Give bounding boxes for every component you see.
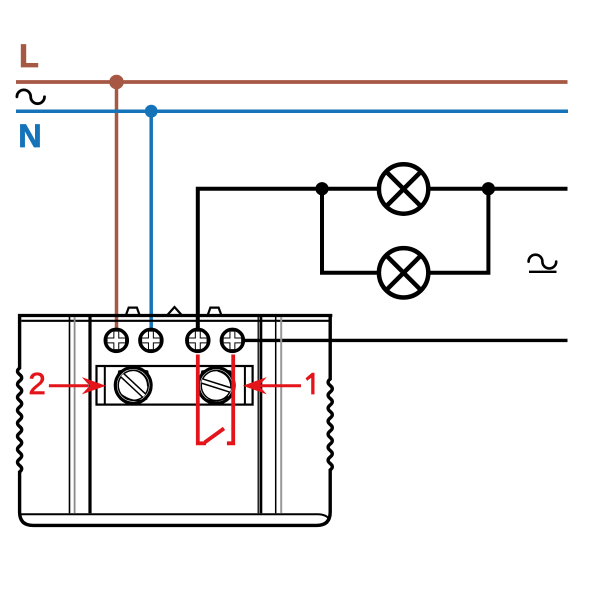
switch contact marker left (red) — [198, 355, 206, 444]
device mounting tab left — [126, 308, 140, 316]
wire N drop to terminal 2 — [149, 111, 153, 330]
device top edge — [18, 314, 332, 317]
arrow 1 (red) — [243, 377, 301, 394]
node N junction — [145, 105, 158, 118]
terminal screw 2 — [140, 329, 162, 351]
device enclosure outline — [18, 317, 333, 525]
svg-text:L: L — [19, 38, 39, 74]
node branch right — [482, 182, 495, 195]
device right column lines — [258, 317, 281, 513]
lamp E2 — [379, 248, 428, 297]
switch contact marker right (red) — [227, 355, 233, 444]
AC symbol right — [529, 255, 557, 272]
device top seam line — [21, 320, 328, 322]
wire L drop to terminal 1 — [115, 82, 119, 330]
terminal screw 3 — [187, 329, 209, 351]
terminal block — [97, 366, 253, 405]
wire lamp parallel branch — [322, 189, 488, 273]
wire N line — [16, 109, 568, 113]
switch blade (red) — [205, 428, 224, 442]
terminal screw 4 — [221, 329, 243, 351]
clamp screw left — [115, 368, 151, 404]
wire lamp feed (corner) — [198, 189, 568, 330]
AC symbol left — [17, 90, 45, 104]
node L junction — [109, 75, 124, 90]
device alignment notch — [167, 307, 183, 316]
device left column lines — [70, 317, 91, 513]
node branch left — [315, 182, 328, 195]
wire L line — [16, 80, 568, 84]
wire switched line from terminal 4 — [240, 339, 568, 342]
device mounting tab right — [207, 308, 221, 316]
arrow 2 (red) — [49, 377, 106, 394]
lamp E1 — [379, 164, 428, 213]
svg-text:N: N — [18, 118, 41, 154]
terminal screw 1 — [105, 329, 127, 351]
clamp screw right — [198, 368, 234, 404]
device bottom seam line — [21, 514, 329, 519]
label 1 (red) — [306, 373, 315, 395]
svg-text:2: 2 — [29, 366, 46, 401]
